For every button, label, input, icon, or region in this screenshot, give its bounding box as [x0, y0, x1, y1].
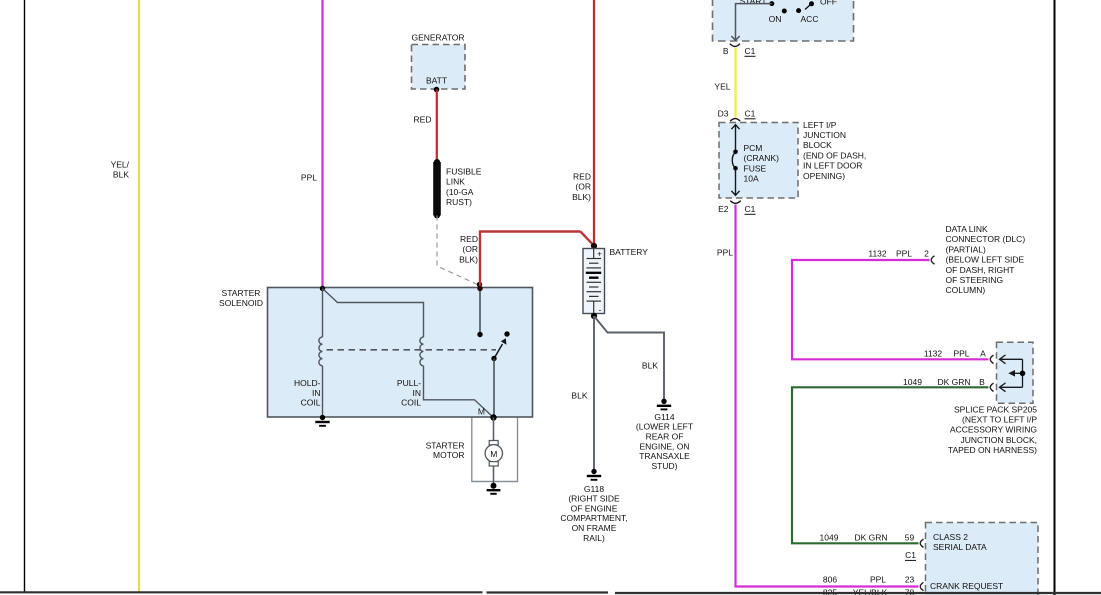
node: junction on red feed wire [477, 282, 482, 287]
svg-text:(LOWER LEFT: (LOWER LEFT [636, 422, 693, 432]
svg-text:B: B [979, 377, 985, 387]
svg-text:C1: C1 [745, 204, 756, 214]
connector arc DLC pin 2 [931, 256, 934, 264]
wire: left black vertical [24, 0, 26, 592]
wire: PPL magenta vertical to starter solenoid [321, 0, 323, 288]
starter solenoid box [268, 288, 533, 418]
hold-in coil [319, 337, 323, 366]
svg-text:G114: G114 [654, 412, 674, 422]
svg-text:(RIGHT SIDE: (RIGHT SIDE [568, 494, 620, 504]
node: battery negative terminal [591, 313, 597, 319]
wire: PPL main vertical + bottom run to crank request [736, 205, 919, 587]
wire: right black vertical [1054, 0, 1056, 595]
wire: M terminal to motor [493, 418, 495, 441]
ground: starter motor [491, 483, 497, 489]
svg-text:1049: 1049 [820, 532, 839, 542]
splice pack tap with arrow [1014, 372, 1023, 374]
svg-text:STUD): STUD) [652, 461, 678, 471]
svg-text:TRANSAXLE: TRANSAXLE [639, 451, 690, 461]
svg-text:PPL: PPL [301, 173, 317, 183]
svg-text:PPL: PPL [896, 248, 912, 258]
svg-text:ON: ON [769, 14, 782, 24]
svg-text:(OR: (OR [462, 244, 478, 254]
svg-text:CRANK REQUEST: CRANK REQUEST [930, 581, 1003, 591]
svg-text:(PARTIAL): (PARTIAL) [946, 244, 986, 254]
battery plates [593, 249, 595, 259]
starter motor housing bracket [472, 418, 518, 482]
svg-text:RUST): RUST) [446, 197, 472, 207]
svg-text:G118: G118 [584, 484, 604, 494]
svg-text:YEL: YEL [714, 82, 730, 92]
wire: RED horizontal feed [480, 232, 581, 289]
wire: RED diagonal into battery [581, 232, 595, 246]
svg-text:PULL-: PULL- [397, 378, 421, 388]
svg-text:STARTER: STARTER [426, 440, 465, 450]
node: solenoid battery entry [477, 286, 482, 291]
node: ignition ACC contact [796, 8, 801, 13]
wire: RED generator to fusible link [436, 90, 438, 163]
fusible link element [433, 162, 441, 216]
svg-text:BLK: BLK [113, 170, 129, 180]
svg-text:C1: C1 [745, 46, 756, 56]
svg-text:LEFT I/P: LEFT I/P [803, 120, 837, 130]
svg-text:C1: C1 [745, 109, 756, 119]
splice pack internal A arrow [1000, 355, 1006, 364]
wire: to pull-in coil [323, 289, 424, 338]
svg-text:BLK): BLK) [572, 192, 591, 202]
motor brush top [489, 441, 498, 445]
connector arc splice B [990, 383, 993, 391]
svg-text:D3: D3 [718, 109, 729, 119]
svg-text:FUSIBLE: FUSIBLE [446, 167, 482, 177]
wire: BLK battery to G118 [593, 316, 595, 471]
svg-text:PPL: PPL [870, 574, 886, 584]
svg-text:REAR OF: REAR OF [646, 432, 684, 442]
svg-text:HOLD-: HOLD- [294, 378, 321, 388]
connector arc D3/C1 [730, 119, 740, 122]
ignition lever (partial) [805, 4, 811, 10]
svg-text:DATA LINK: DATA LINK [946, 224, 989, 234]
svg-text:TAPED ON HARNESS): TAPED ON HARNESS) [948, 445, 1037, 455]
wire: BLK battery to G114 [594, 316, 664, 400]
svg-text:(NEXT TO LEFT I/P: (NEXT TO LEFT I/P [962, 415, 1037, 425]
svg-text:ACC: ACC [801, 14, 819, 24]
fuse element [731, 125, 739, 130]
svg-text:YEL/: YEL/ [111, 160, 130, 170]
svg-text:STARTER: STARTER [222, 288, 261, 298]
node: fixed contact left [477, 332, 482, 337]
svg-text:23: 23 [905, 574, 915, 584]
svg-text:RED: RED [414, 115, 432, 125]
svg-text:1049: 1049 [903, 377, 922, 387]
connector arc E2/C1 [730, 201, 740, 204]
svg-text:M: M [478, 407, 485, 417]
battery outline [583, 249, 605, 314]
svg-text:59: 59 [905, 532, 915, 542]
wire: left yellow vertical YEL/BLK [138, 0, 140, 592]
connector arc B/C1 [730, 44, 740, 47]
wire: RED vertical feed from top [593, 0, 595, 246]
svg-text:(OR: (OR [575, 182, 591, 192]
wire: DK GRN 1049 splice B to class 2 serial data [792, 387, 989, 543]
wire: pivot to M terminal [493, 359, 495, 418]
svg-text:SOLENOID: SOLENOID [219, 298, 263, 308]
svg-text:IN: IN [413, 388, 422, 398]
svg-text:COIL: COIL [301, 398, 321, 408]
svg-text:CONNECTOR (DLC): CONNECTOR (DLC) [946, 234, 1026, 244]
svg-text:GENERATOR: GENERATOR [411, 33, 464, 43]
svg-text:PPL: PPL [717, 248, 733, 258]
svg-text:ENGINE, ON: ENGINE, ON [639, 441, 689, 451]
node: solenoid S terminal [320, 286, 325, 291]
wire: battery contact feed inside solenoid [479, 289, 481, 335]
node: switch pivot [491, 356, 496, 361]
connector arc splice A [990, 355, 993, 363]
wire: ignition B output with arrow [736, 4, 772, 40]
wire: dashed link from fusible link to red feed [437, 216, 478, 285]
svg-text:2: 2 [924, 248, 929, 258]
ground G114 [661, 399, 666, 404]
wire: motor to ground [493, 466, 495, 486]
svg-text:BATT: BATT [426, 76, 447, 86]
motor brush bottom [489, 462, 498, 466]
svg-text:ON FRAME: ON FRAME [572, 523, 617, 533]
connector arc class 2 pin 59 [920, 539, 923, 547]
svg-text:+: + [597, 249, 602, 259]
svg-text:LINK: LINK [446, 177, 465, 187]
svg-text:-: - [599, 305, 602, 315]
svg-text:COIL: COIL [401, 398, 421, 408]
wire: hold-in coil to ground [322, 366, 324, 417]
node: battery positive terminal [591, 243, 597, 249]
node: M terminal [490, 414, 496, 420]
node: ignition START contact [769, 1, 774, 6]
svg-text:A: A [980, 348, 986, 358]
svg-text:DK GRN: DK GRN [854, 532, 887, 542]
pull-in coil [420, 337, 424, 366]
PCM CRANK fuse box (dashed) [719, 123, 798, 199]
svg-text:(BELOW LEFT SIDE: (BELOW LEFT SIDE [946, 255, 1025, 265]
svg-text:RAIL): RAIL) [583, 533, 605, 543]
svg-text:JUNCTION: JUNCTION [803, 130, 846, 140]
svg-text:BLK: BLK [642, 361, 658, 371]
svg-text:COLUMN): COLUMN) [946, 285, 986, 295]
svg-text:E2: E2 [718, 204, 729, 214]
wire: bottom black horizontal (3 segments) [0, 591, 483, 593]
PCM connector box (CLASS 2 / CRANK REQUEST) [926, 523, 1039, 595]
node: ignition ON contact [782, 9, 787, 14]
svg-text:DK GRN: DK GRN [937, 377, 970, 387]
svg-text:CLASS 2: CLASS 2 [933, 532, 968, 542]
node: ignition OFF contact [809, 1, 814, 6]
svg-text:BLK): BLK) [459, 254, 478, 264]
svg-text:COMPARTMENT,: COMPARTMENT, [560, 513, 627, 523]
svg-text:1132: 1132 [924, 348, 943, 358]
svg-text:(CRANK): (CRANK) [744, 153, 780, 163]
connector arc crank request [920, 582, 923, 590]
svg-text:M: M [490, 449, 497, 459]
wire: PPL 1132 DLC branch [792, 260, 989, 359]
wire: pull-in coil to M terminal [424, 366, 494, 418]
splice pack bus [1022, 359, 1024, 387]
svg-text:OF STEERING: OF STEERING [946, 275, 1004, 285]
svg-text:PPL: PPL [953, 348, 969, 358]
svg-text:10A: 10A [744, 174, 759, 184]
svg-text:OF ENGINE: OF ENGINE [571, 503, 618, 513]
svg-text:BLK: BLK [571, 391, 587, 401]
svg-text:BATTERY: BATTERY [610, 247, 649, 257]
svg-text:1132: 1132 [868, 248, 887, 258]
dashed mechanical link [327, 349, 497, 351]
node: generator BATT terminal [434, 87, 440, 93]
svg-text:MOTOR: MOTOR [433, 450, 464, 460]
svg-text:BLOCK: BLOCK [803, 140, 832, 150]
splice pack SP205 box [997, 342, 1034, 403]
node: fixed contact right [504, 331, 509, 336]
motor circle M [485, 445, 502, 462]
svg-text:OFF: OFF [820, 0, 837, 7]
ground: solenoid hold-in coil [320, 415, 325, 420]
svg-text:OPENING): OPENING) [803, 171, 845, 181]
svg-text:B: B [723, 46, 729, 56]
svg-text:ACCESSORY WIRING: ACCESSORY WIRING [950, 425, 1037, 435]
svg-text:RED: RED [573, 172, 591, 182]
svg-text:IN LEFT DOOR: IN LEFT DOOR [803, 161, 862, 171]
svg-text:PCM: PCM [744, 143, 763, 153]
svg-text:JUNCTION BLOCK,: JUNCTION BLOCK, [960, 435, 1037, 445]
svg-text:806: 806 [823, 574, 837, 584]
switch lever with arrowhead [494, 344, 503, 359]
svg-text:OF DASH, RIGHT: OF DASH, RIGHT [946, 265, 1015, 275]
svg-text:C1: C1 [905, 550, 916, 560]
svg-text:SERIAL DATA: SERIAL DATA [933, 542, 987, 552]
svg-text:IN: IN [312, 388, 321, 398]
svg-text:RED: RED [460, 234, 478, 244]
ignition switch box (cut off at top) [713, 0, 854, 41]
wire: YEL ignition to junction block [734, 48, 736, 118]
svg-text:(END OF DASH,: (END OF DASH, [803, 150, 866, 160]
svg-text:SPLICE PACK SP205: SPLICE PACK SP205 [954, 405, 1037, 415]
generator box (dashed, partial) [412, 45, 466, 90]
svg-text:(10-GA: (10-GA [446, 187, 474, 197]
splice pack internal B arrow [1000, 383, 1006, 392]
ground G118 [591, 469, 596, 474]
svg-text:FUSE: FUSE [744, 163, 767, 173]
wire: to hold-in coil [322, 289, 324, 338]
